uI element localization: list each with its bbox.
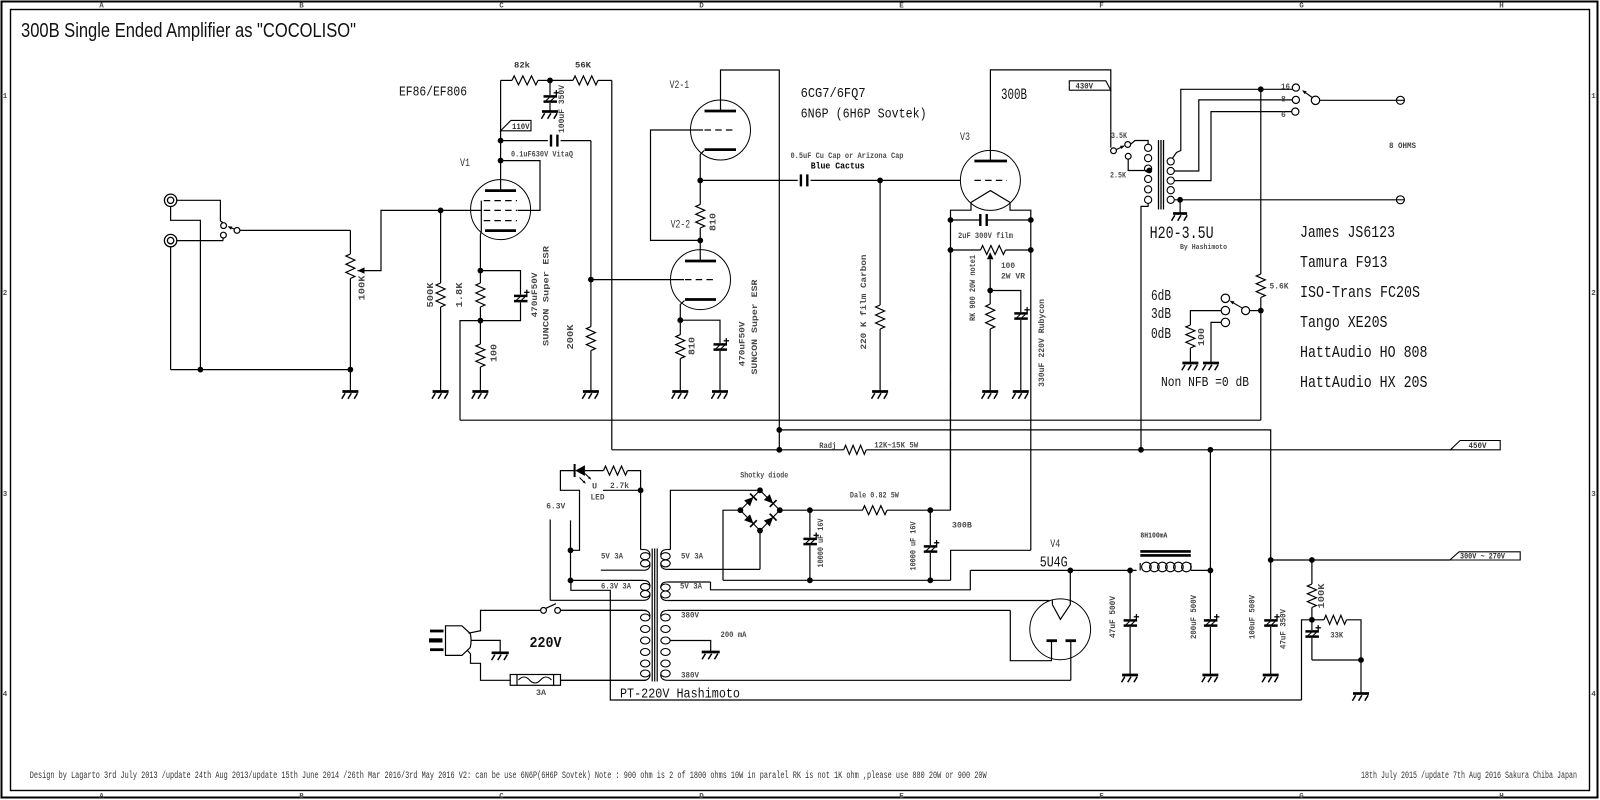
- svg-text:2.7k: 2.7k: [610, 481, 629, 491]
- svg-text:LED: LED: [591, 493, 605, 503]
- resistor Dale 0.82 5W: [863, 506, 888, 515]
- V3 plate lead to OPT: [990, 70, 1110, 161]
- svg-text:5V 3A: 5V 3A: [601, 553, 623, 562]
- wire B+ 450V rail: [612, 449, 844, 451]
- ground 200uF 500V: [1202, 674, 1218, 677]
- hum balance pot 100 2W VR: [951, 249, 981, 251]
- input selector contact upper: [221, 223, 227, 229]
- wire plus feed up: [949, 250, 951, 510]
- ground 500K: [433, 390, 449, 393]
- bridge diode D1: [744, 494, 757, 507]
- svg-text:EF86/EF806: EF86/EF806: [399, 86, 467, 101]
- wire input ground rail: [171, 369, 351, 371]
- volume pot wiper: [358, 267, 365, 273]
- ground 100uF 500V: [1263, 674, 1279, 677]
- PT core: [651, 549, 653, 682]
- svg-text:V2-1: V2-1: [670, 80, 690, 92]
- wire J2 tip to selector: [177, 238, 224, 241]
- V1 suppressor tie and cathode lead: [479, 201, 482, 271]
- ground 33K: [1360, 660, 1362, 694]
- svg-text:James JS6123: James JS6123: [1300, 223, 1395, 242]
- svg-text:PT-220V Hashimoto: PT-220V Hashimoto: [620, 687, 740, 703]
- svg-text:H: H: [1499, 793, 1504, 800]
- PT winding primary 220V: [561, 609, 644, 611]
- wire mains earth: [471, 640, 500, 652]
- svg-text:1: 1: [3, 93, 8, 101]
- wire choke output to rail: [1209, 450, 1211, 571]
- V2-1 grid dashed: [705, 129, 737, 131]
- svg-text:810: 810: [686, 337, 697, 355]
- junction 33K bottom: [1358, 657, 1364, 663]
- svg-text:2.5K: 2.5K: [1110, 171, 1126, 180]
- V4 filament: [1052, 605, 1070, 620]
- junction V1 screen node: [498, 158, 504, 164]
- speaker jack positive: [1396, 96, 1404, 104]
- ground 0dB: [1203, 362, 1219, 365]
- OPT core: [1158, 140, 1160, 210]
- input jack J2: [164, 234, 176, 246]
- svg-text:470uF50V: 470uF50V: [738, 321, 748, 367]
- wire mains hot: [469, 610, 541, 633]
- speaker selector pole: [1311, 96, 1319, 104]
- tube V2-1 envelope: [691, 100, 751, 160]
- speaker jack negative: [1396, 196, 1404, 204]
- resistor Radj 12K-15K 5W: [844, 445, 867, 454]
- svg-text:RK 900 20W note1: RK 900 20W note1: [968, 255, 978, 321]
- svg-text:5U4G: 5U4G: [1040, 555, 1068, 572]
- tag 110V: [501, 120, 531, 130]
- speaker tap contact 6: [1292, 108, 1299, 115]
- ground 200K: [583, 390, 599, 393]
- capacitor 330uF 220V: [990, 291, 1021, 313]
- bridge diode D4: [763, 514, 776, 527]
- svg-text:100: 100: [1001, 261, 1015, 271]
- svg-text:B: B: [299, 3, 304, 11]
- wire rectifier output: [970, 569, 1136, 571]
- capacitor 0.1uF 630V VitaQ: [501, 140, 548, 142]
- wire divider to bias line: [1302, 620, 1312, 700]
- junction LED anode node: [638, 487, 644, 493]
- junction V2-2 plate node: [697, 238, 703, 244]
- svg-text:B: B: [299, 793, 304, 800]
- wire bridge AC top: [670, 490, 760, 549]
- junction bridge bottom: [757, 528, 763, 534]
- junction RK900 node: [987, 288, 993, 294]
- svg-text:3A: 3A: [536, 689, 546, 698]
- wire 0.1uF to V2-2 grid: [590, 141, 592, 280]
- junction V1 cathode: [478, 268, 484, 274]
- resistor 810 lower: [679, 320, 681, 334]
- svg-text:A: A: [99, 793, 104, 800]
- svg-text:Design by Lagarto 3rd July 201: Design by Lagarto 3rd July 2013 /update …: [30, 770, 987, 782]
- junction V4 filament out: [1067, 568, 1073, 574]
- wire secondary 16 tap: [1173, 89, 1293, 158]
- resistor 56K: [550, 79, 573, 81]
- wire 6.3V stub B: [570, 520, 572, 580]
- bridge diode D2: [763, 494, 776, 507]
- svg-text:6CG7/6FQ7: 6CG7/6FQ7: [801, 87, 866, 102]
- svg-text:47uF 500V: 47uF 500V: [1108, 595, 1118, 638]
- svg-text:56K: 56K: [575, 61, 592, 71]
- svg-text:220V: 220V: [530, 635, 562, 652]
- junction hum pot right: [1028, 247, 1034, 253]
- wire J1 sleeve down: [171, 207, 201, 370]
- junction 10000uF A bottom: [807, 577, 813, 583]
- wire LED cathode down: [560, 471, 579, 551]
- wire feedback rail: [460, 419, 1261, 421]
- power switch: [541, 608, 547, 614]
- ground center tap: [702, 651, 720, 654]
- svg-text:8 OHMS: 8 OHMS: [1389, 142, 1416, 151]
- svg-text:0dB: 0dB: [1151, 326, 1171, 343]
- junction bridge top: [757, 487, 763, 493]
- junction NFB takeoff: [1258, 86, 1264, 92]
- resistor 220K grid leak: [879, 180, 881, 305]
- V4 filament left leg: [1051, 600, 1053, 604]
- svg-text:16: 16: [1281, 83, 1290, 92]
- junction input ground B: [348, 367, 354, 373]
- junction secondary ground: [1177, 197, 1183, 203]
- capacitor 10000uF B: [929, 510, 931, 545]
- svg-text:Tango XE20S: Tango XE20S: [1300, 313, 1388, 332]
- tap selector arm: [1116, 146, 1123, 150]
- V2-1 cathode lead: [700, 151, 704, 181]
- svg-text:4: 4: [1591, 691, 1596, 699]
- junction bridge right: [777, 507, 783, 513]
- capacitor 2uF 300V film: [951, 219, 981, 221]
- svg-text:500K: 500K: [425, 282, 436, 307]
- wire secondary bottom: [1174, 199, 1396, 201]
- junction bridge left: [738, 507, 744, 513]
- svg-text:4: 4: [3, 691, 8, 699]
- V2-2 cathode lead: [680, 301, 684, 321]
- svg-text:12K~15K 5W: 12K~15K 5W: [874, 441, 919, 451]
- svg-text:300B: 300B: [1001, 86, 1027, 104]
- svg-text:8H100mA: 8H100mA: [1140, 533, 1167, 541]
- wire 2.5K tap to primary tap: [1128, 159, 1149, 170]
- svg-text:1: 1: [1591, 93, 1596, 101]
- svg-text:Tamura F913: Tamura F913: [1300, 253, 1388, 272]
- junction NFB switch node: [1258, 308, 1264, 314]
- wire V4 heater feed: [711, 570, 971, 589]
- wire 300V rail to tag: [1271, 559, 1450, 561]
- junction 10000uF B top: [927, 507, 933, 513]
- PT winding 5V right upper: [667, 549, 670, 551]
- wire bridge plus rail: [780, 509, 863, 511]
- V2-2 grid dashed: [685, 279, 716, 281]
- V2-2 cathode: [685, 298, 716, 301]
- PT winding 5V left: [640, 490, 642, 549]
- OPT primary winding: [1145, 144, 1152, 151]
- Schottky bridge diamond: [740, 490, 760, 510]
- wire pole to speaker jack: [1320, 99, 1397, 101]
- PT winding 6.3V: [571, 579, 644, 581]
- NFB selector pole: [1242, 307, 1250, 315]
- svg-text:By Hashimoto: By Hashimoto: [1180, 244, 1227, 252]
- input selector arm: [229, 227, 235, 230]
- V3 grid dashed: [974, 179, 1007, 181]
- svg-text:3: 3: [1591, 491, 1596, 499]
- junction choke feed: [1208, 447, 1214, 453]
- svg-text:2: 2: [3, 290, 8, 298]
- junction 100uF node: [1268, 557, 1274, 563]
- wire secondary 6 tap: [1174, 112, 1291, 181]
- svg-text:6: 6: [1281, 111, 1286, 120]
- junction 10000uF B bottom: [927, 577, 933, 583]
- ground 100 NFB: [1182, 362, 1198, 365]
- capacitor 0.5uF Blue Cactus: [700, 179, 797, 181]
- svg-text:810: 810: [708, 213, 719, 231]
- wire J1 tip to selector: [177, 200, 223, 223]
- wire 3dB contact to 100: [1190, 311, 1221, 325]
- junction V1 coupling node: [498, 138, 504, 144]
- svg-text:300V ~ 270V: 300V ~ 270V: [1460, 552, 1505, 561]
- wire 0dB contact to ground: [1211, 322, 1221, 363]
- resistor 82k: [501, 79, 512, 81]
- junction rail stub bottom: [776, 447, 782, 453]
- svg-text:HattAudio HX 20S: HattAudio HX 20S: [1300, 373, 1428, 392]
- OPT secondary winding: [1167, 158, 1174, 165]
- svg-text:100: 100: [1196, 328, 1207, 346]
- choke 8H100mA: [1139, 563, 1141, 570]
- V2-1 plate: [705, 110, 737, 113]
- V4 plate right lead: [1070, 641, 1072, 681]
- svg-text:E: E: [899, 793, 904, 800]
- svg-text:F: F: [1099, 793, 1104, 800]
- wire 6.3V stub A: [549, 520, 551, 601]
- svg-text:3.5K: 3.5K: [1111, 132, 1127, 141]
- svg-text:470uF50V: 470uF50V: [530, 272, 540, 318]
- wire mains neutral: [468, 651, 511, 681]
- tube V4 envelope: [1030, 599, 1091, 660]
- resistor 810 upper: [699, 180, 701, 204]
- svg-text:Dale 0.82 5W: Dale 0.82 5W: [850, 490, 900, 500]
- svg-text:V4: V4: [1050, 539, 1060, 551]
- ground secondary: [1179, 200, 1181, 214]
- svg-text:300B Single Ended Amplifier a: 300B Single Ended Amplifier as "COCOLISO…: [21, 20, 356, 42]
- svg-text:220 K film Carbon: 220 K film Carbon: [859, 255, 869, 350]
- tap contact 3.5K: [1125, 142, 1131, 148]
- NFB contact 6dB: [1221, 294, 1229, 302]
- bridge diode D3: [744, 514, 757, 527]
- wire fuse to primary: [561, 679, 647, 681]
- wire filament right down: [1030, 220, 1032, 550]
- svg-text:6dB: 6dB: [1151, 288, 1171, 305]
- svg-text:82k: 82k: [514, 61, 530, 71]
- V1 grid g1 g2 g3 dashed: [484, 200, 517, 202]
- wire divider loop: [1312, 659, 1361, 661]
- resistor 200K: [590, 280, 592, 327]
- NFB selector arm: [1231, 302, 1243, 309]
- svg-text:H20-3.5U: H20-3.5U: [1150, 224, 1214, 244]
- V1 screen strap loop: [501, 161, 540, 211]
- V3 plate: [974, 160, 1007, 163]
- junction filament left: [948, 217, 954, 223]
- svg-text:A: A: [99, 3, 104, 11]
- wire secondary 8 tap: [1174, 100, 1292, 171]
- junction hum pot left: [948, 247, 954, 253]
- tube V2-2 envelope: [671, 250, 731, 310]
- svg-text:F: F: [1099, 3, 1104, 11]
- svg-text:Non NFB =0 dB: Non NFB =0 dB: [1161, 375, 1249, 391]
- svg-text:3dB: 3dB: [1151, 306, 1171, 323]
- svg-text:47uF 350V: 47uF 350V: [1279, 608, 1289, 649]
- svg-text:H: H: [1499, 3, 1504, 11]
- svg-text:100uF 500V: 100uF 500V: [1248, 594, 1258, 639]
- primary tap selector pole: [1111, 148, 1117, 154]
- capacitor 100uF 500V: [1270, 560, 1272, 619]
- V4 plate left: [1047, 639, 1058, 642]
- wire choke out: [1191, 569, 1210, 571]
- junction choke out: [1208, 568, 1214, 574]
- resistor 500K grid leak: [440, 210, 442, 283]
- junction 82k 56K: [547, 78, 553, 84]
- speaker tap contact 16: [1292, 84, 1299, 91]
- junction 10000uF A top: [807, 507, 813, 513]
- junction divider node: [1309, 617, 1315, 623]
- PT winding 5V right lower: [667, 581, 710, 583]
- junction V2 output node: [697, 178, 703, 184]
- svg-text:8: 8: [1281, 96, 1286, 105]
- resistor 1.8K: [479, 271, 481, 283]
- svg-text:V3: V3: [960, 132, 970, 144]
- svg-text:6N6P (6H6P Sovtek): 6N6P (6H6P Sovtek): [801, 108, 927, 123]
- junction OPT B+ feed: [1138, 447, 1144, 453]
- input jack J1: [164, 194, 176, 206]
- junction 47uF node: [1127, 568, 1133, 574]
- svg-text:2uF 300V film: 2uF 300V film: [958, 231, 1013, 241]
- junction input ground A: [198, 367, 204, 373]
- svg-text:V2-2: V2-2: [671, 220, 691, 232]
- tag 450V: [1450, 441, 1500, 450]
- wire feedback branch to rail: [460, 321, 480, 421]
- input selector pole: [234, 228, 240, 234]
- svg-text:450V: 450V: [1469, 442, 1487, 451]
- svg-text:C: C: [499, 3, 504, 11]
- capacitor 47uF 500V: [1129, 570, 1131, 619]
- ground 220K: [872, 390, 888, 393]
- V1 plate lead: [500, 80, 502, 190]
- svg-text:110V: 110V: [512, 123, 530, 132]
- svg-text:5V 3A: 5V 3A: [680, 583, 702, 592]
- wire to V2-2 plate: [699, 240, 701, 261]
- svg-text:G: G: [1299, 3, 1304, 11]
- wire switch to primary: [561, 609, 647, 611]
- V1 plate: [485, 189, 516, 192]
- junction primary tap: [1146, 168, 1152, 174]
- AC plug: [430, 630, 444, 633]
- svg-text:SUNCON Super ESR: SUNCON Super ESR: [542, 245, 552, 346]
- svg-text:0.1uF630V VitaQ: 0.1uF630V VitaQ: [511, 150, 573, 160]
- svg-text:V1: V1: [460, 158, 470, 170]
- wire U label underline: [603, 489, 641, 491]
- LED U: [574, 464, 576, 477]
- junction 6.3V top lead: [568, 578, 574, 584]
- wire heater jog to bias line: [571, 580, 1302, 700]
- wire minus feed up: [951, 550, 1031, 580]
- junction rail stub top: [776, 427, 782, 433]
- capacitor 470uF bypass V2-2: [680, 320, 720, 343]
- svg-text:200uF 500V: 200uF 500V: [1189, 594, 1199, 639]
- wire bridge minus: [723, 510, 740, 580]
- NFB contact 3dB: [1221, 306, 1229, 314]
- junction filament right: [1028, 217, 1034, 223]
- wire J2 sleeve down: [170, 247, 172, 370]
- resistor 2.7k: [604, 466, 628, 475]
- svg-text:100K: 100K: [357, 275, 368, 300]
- V2-1 plate lead to B+: [721, 70, 780, 450]
- wire B+ 300V rail: [779, 430, 1270, 560]
- svg-text:100uF 350V: 100uF 350V: [557, 84, 567, 133]
- svg-text:E: E: [899, 3, 904, 11]
- svg-text:33K: 33K: [1330, 631, 1344, 641]
- svg-text:10000 uF 16V: 10000 uF 16V: [909, 521, 919, 571]
- wire HV center tap: [670, 641, 711, 653]
- wire grid to V1: [441, 209, 482, 211]
- svg-text:G: G: [1299, 793, 1304, 800]
- svg-text:2: 2: [1591, 290, 1596, 298]
- tap contact 2.5K: [1125, 153, 1131, 159]
- wire filament left down: [950, 220, 952, 510]
- ground RK900: [982, 390, 998, 393]
- svg-text:1.8K: 1.8K: [454, 282, 465, 307]
- junction 100K feed: [1309, 557, 1315, 563]
- svg-text:430V: 430V: [1076, 83, 1094, 92]
- resistor RK 900: [989, 291, 991, 305]
- svg-text:ISO-Trans FC20S: ISO-Trans FC20S: [1300, 283, 1420, 302]
- svg-text:2W VR: 2W VR: [1001, 272, 1026, 282]
- resistor 5.6K: [1256, 274, 1265, 298]
- wire 3.5K tap to primary top: [1131, 141, 1149, 145]
- volume pot 100K: [349, 230, 351, 254]
- wire NFB to rail: [1260, 311, 1262, 421]
- ground 330uF: [1013, 390, 1029, 393]
- ground 100uF: [542, 110, 558, 113]
- resistor 100K bleeder: [1311, 560, 1313, 584]
- ground 47uF 500V: [1122, 674, 1138, 677]
- svg-text:Shotky diode: Shotky diode: [740, 471, 788, 481]
- svg-text:100K: 100K: [1316, 583, 1327, 608]
- svg-text:C: C: [499, 793, 504, 800]
- tag 300V ~ 270V: [1450, 552, 1520, 560]
- NFB contact 0dB: [1221, 318, 1229, 326]
- svg-text:5.6K: 5.6K: [1270, 283, 1289, 292]
- svg-text:200 mA: 200 mA: [721, 631, 747, 640]
- ground mains earth: [492, 651, 509, 654]
- wire bridge AC bottom: [759, 531, 761, 570]
- V3 filament: [971, 191, 1010, 203]
- V2-1 cathode: [705, 148, 737, 151]
- speaker tap contact 8: [1292, 96, 1299, 103]
- svg-text:Radj: Radj: [819, 441, 836, 451]
- V2-2 plate: [685, 260, 716, 263]
- resistor 33K: [1312, 619, 1324, 621]
- V4 plate left lead: [1010, 610, 1051, 660]
- wire 56K to B+ rail: [611, 80, 613, 449]
- svg-text:U: U: [592, 482, 597, 492]
- svg-text:D: D: [699, 793, 704, 800]
- junction grid node: [438, 208, 444, 214]
- wire selector pole to volume pot: [240, 229, 351, 231]
- svg-text:SUNCON Super ESR: SUNCON Super ESR: [750, 278, 760, 374]
- capacitor 470uF bypass loop V1: [480, 271, 520, 295]
- ground volume pot: [349, 370, 351, 392]
- resistor 100 NFB: [1186, 325, 1195, 348]
- wire LED anode to 2.7k: [585, 470, 604, 472]
- svg-text:HattAudio HO 808: HattAudio HO 808: [1300, 343, 1428, 362]
- svg-text:6.3V: 6.3V: [546, 502, 566, 512]
- svg-text:380V: 380V: [681, 612, 699, 621]
